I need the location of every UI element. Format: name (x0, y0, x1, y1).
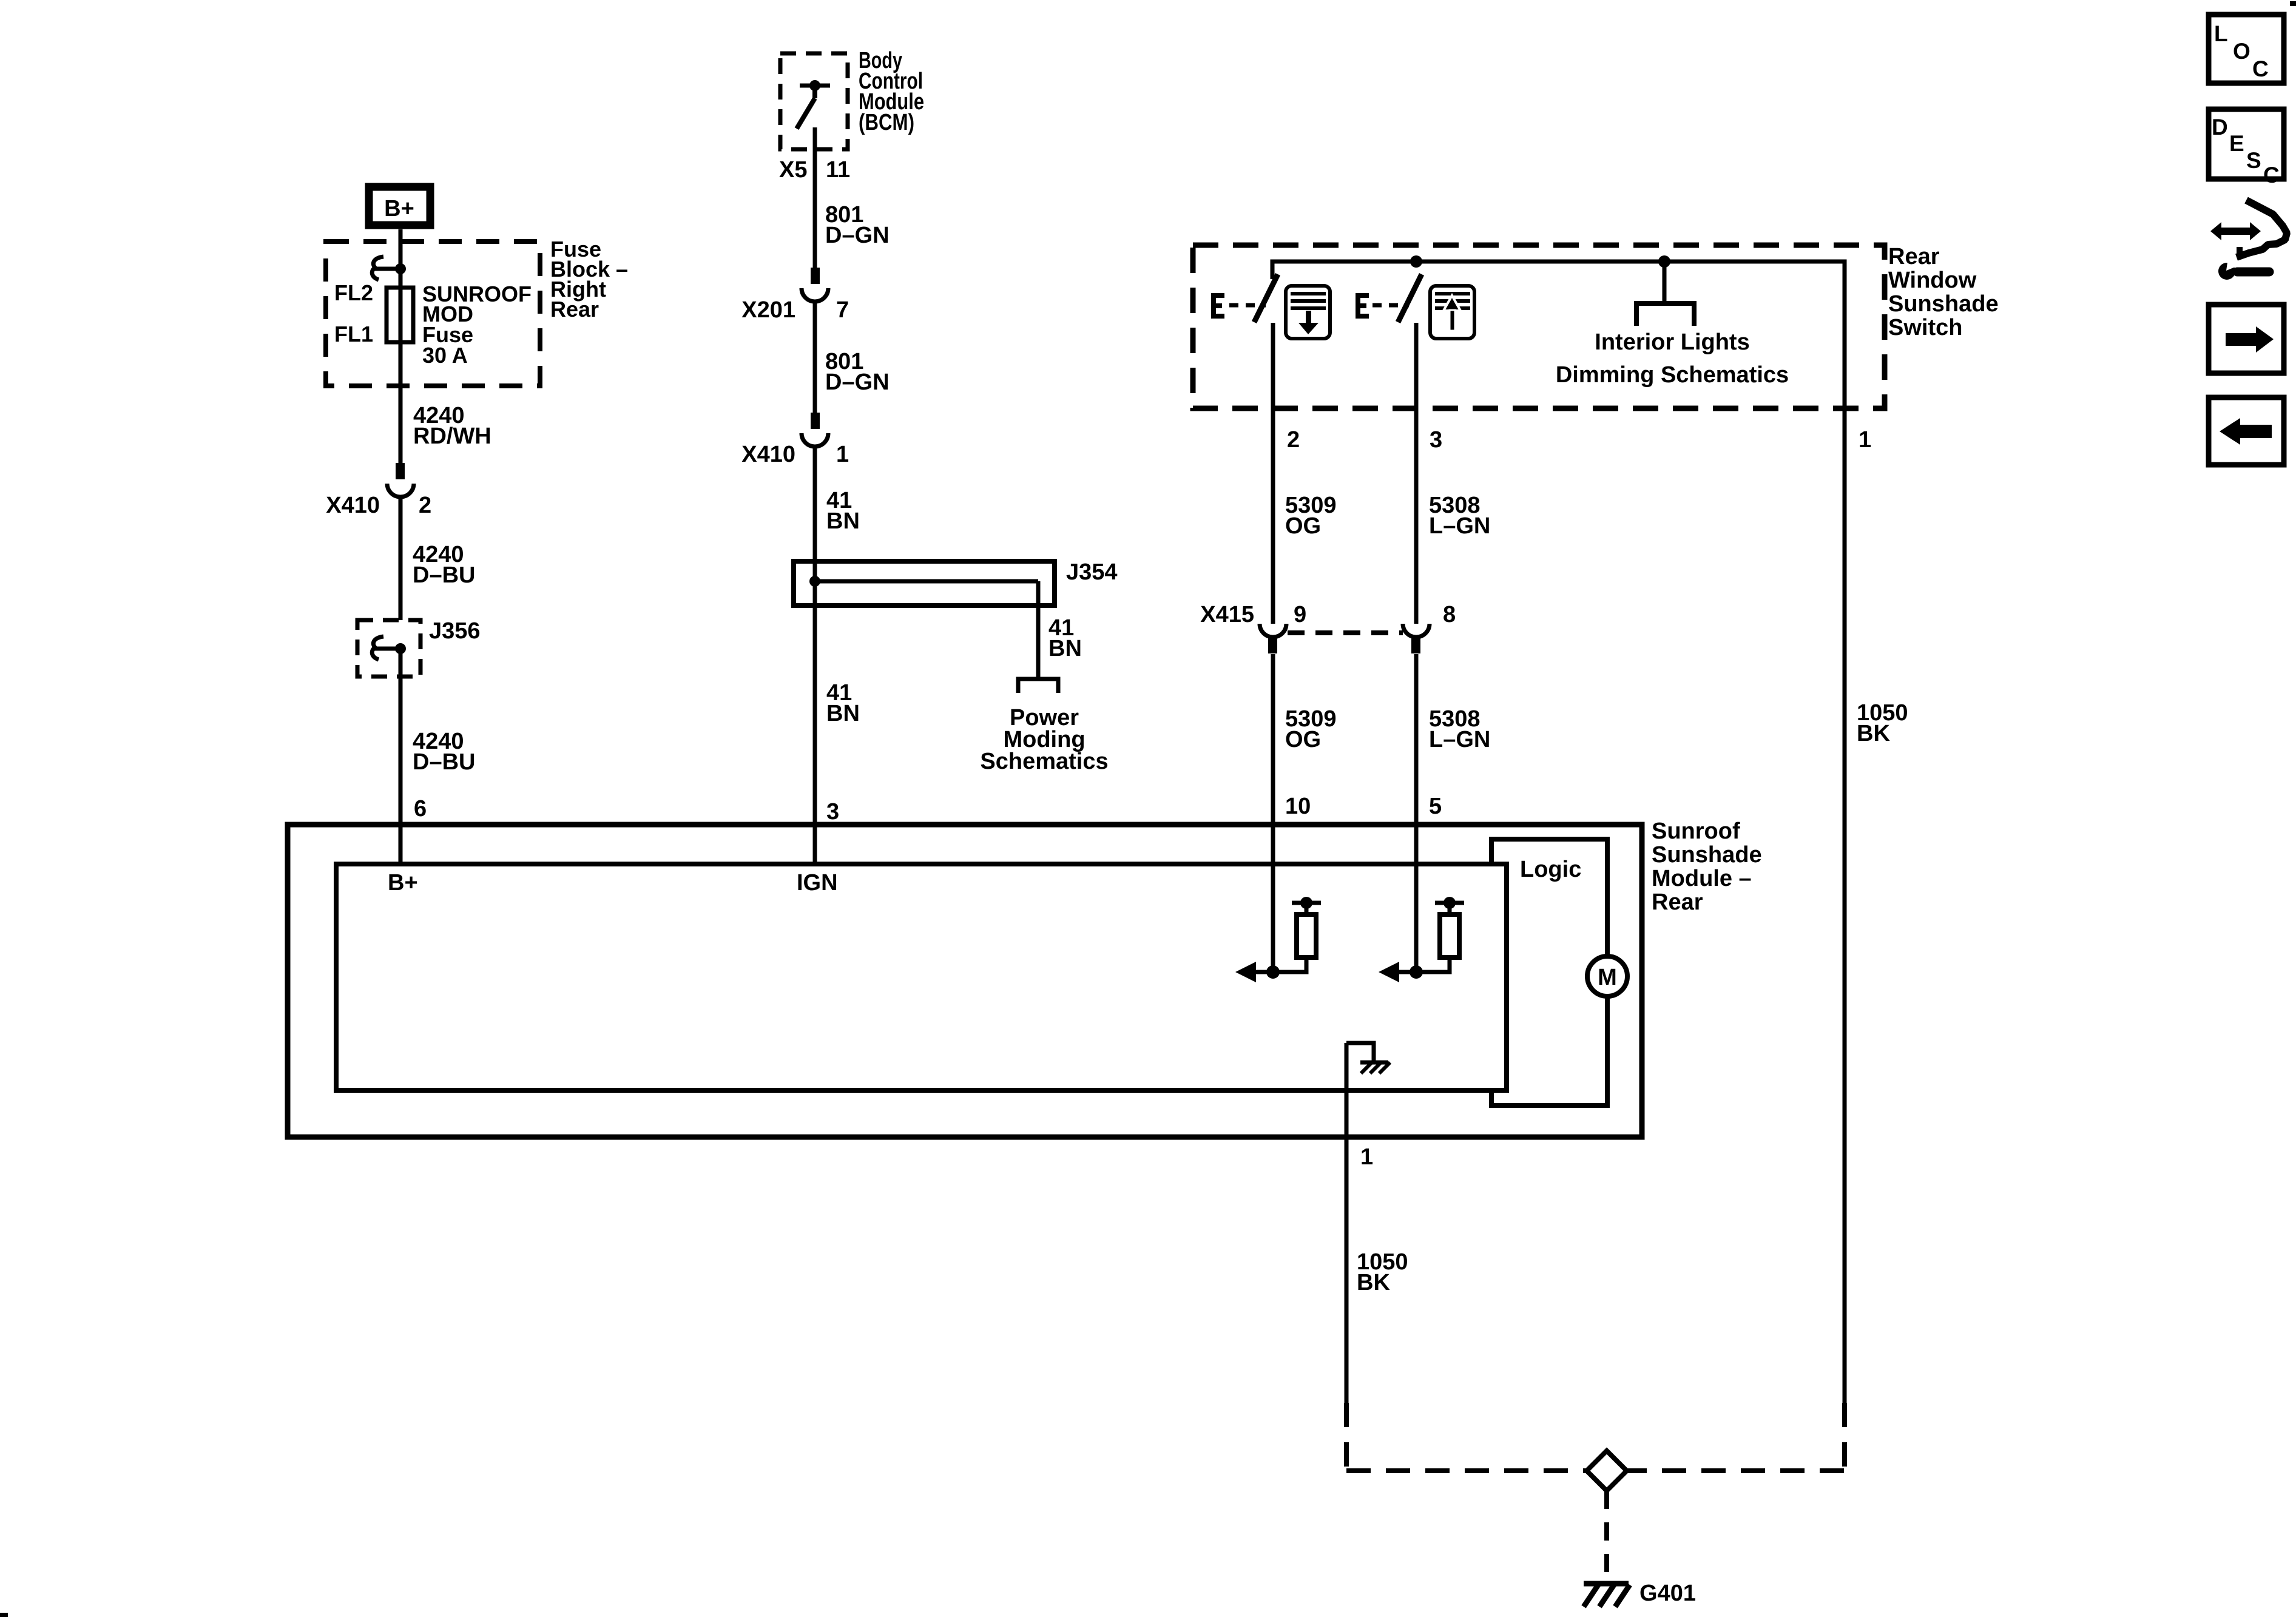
dashed drop to G401 (1604, 1491, 1609, 1582)
page artifact bottom left (0, 1613, 8, 1617)
sunshade close icon (1286, 286, 1330, 339)
wire label 41 BN (826, 680, 860, 726)
svg-text:FL1: FL1 (334, 322, 373, 346)
svg-text:BN: BN (1048, 636, 1082, 661)
fuse block dashed box (326, 241, 540, 386)
svg-text:L: L (2214, 21, 2228, 46)
motor M (1587, 956, 1627, 996)
connector X410 pin 1 (802, 413, 828, 447)
fuse FL1 SUNROOF MOD 30A (387, 269, 413, 342)
splice J356 dashed box (357, 620, 420, 677)
svg-text:O: O (2233, 39, 2250, 64)
svg-text:X410: X410 (741, 442, 795, 467)
svg-text:2: 2 (1287, 427, 1300, 453)
svg-text:1: 1 (1360, 1144, 1373, 1170)
E drive symbol S2 (1357, 293, 1409, 319)
label Power Moding Schematics (980, 705, 1108, 774)
wire BCM to X201 (813, 127, 817, 268)
bus wire in switch + right wire 1050 BK down (1272, 262, 1845, 1403)
switch S1 (sunshade close) (1254, 274, 1278, 624)
svg-text:M: M (1598, 965, 1617, 990)
svg-text:C: C (2252, 56, 2269, 81)
svg-text:7: 7 (836, 297, 849, 323)
svg-text:Schematics: Schematics (980, 749, 1108, 774)
logic block (1491, 839, 1607, 1106)
switch S2 (sunshade open) (1398, 274, 1422, 624)
node bus/interior-lights branch (1658, 255, 1670, 268)
svg-text:Switch: Switch (1888, 315, 1962, 340)
splice node diamond (1587, 1451, 1627, 1491)
ground G401 (1584, 1584, 1630, 1607)
svg-text:L–GN: L–GN (1429, 513, 1490, 539)
svg-text:D–GN: D–GN (825, 223, 890, 248)
svg-text:X201: X201 (741, 297, 795, 323)
wire label 4240 D-BU (413, 729, 475, 775)
label Fuse Block - Right Rear (550, 237, 628, 322)
svg-text:S: S (2246, 148, 2261, 173)
svg-text:1: 1 (836, 442, 849, 467)
svg-text:BK: BK (1357, 1270, 1390, 1295)
internal ground of module (1346, 1043, 1390, 1073)
connector X415 pin 9 (1260, 624, 1286, 653)
svg-text:Sunroof: Sunroof (1652, 819, 1740, 844)
module inner box (336, 864, 1507, 1090)
svg-text:OG: OG (1285, 727, 1321, 752)
svg-text:3: 3 (1430, 427, 1442, 453)
svg-text:BK: BK (1857, 721, 1890, 746)
Sunroof Sunshade Module outer box (288, 825, 1642, 1137)
svg-text:8: 8 (1443, 602, 1456, 627)
switch inside BCM (797, 80, 830, 129)
wire J356 to module pin 6 (399, 649, 403, 864)
svg-text:D–GN: D–GN (825, 370, 890, 395)
icon DESC (2209, 109, 2284, 187)
power symbol B+ (369, 187, 430, 225)
svg-text:2: 2 (419, 493, 431, 518)
node bus/switch2 (1410, 255, 1422, 268)
svg-text:6: 6 (414, 796, 427, 822)
svg-text:D–BU: D–BU (413, 749, 475, 775)
wire label 41 BN (1048, 615, 1082, 661)
splice pack J354 (794, 561, 1055, 679)
icon LOC (2209, 15, 2284, 83)
splice symbol J356 (372, 636, 406, 660)
icon harness repair (2210, 200, 2287, 280)
interior lights branch + off-page fork (1636, 262, 1694, 326)
svg-text:J356: J356 (429, 618, 481, 644)
svg-text:Rear: Rear (1888, 244, 1940, 269)
Rear Window Sunshade Switch dashed box (1193, 245, 1885, 408)
svg-text:BN: BN (826, 508, 860, 534)
svg-text:X410: X410 (326, 493, 380, 518)
svg-text:C: C (2263, 163, 2280, 187)
connector X410 pin 2 (387, 463, 414, 497)
svg-text:Module –: Module – (1652, 866, 1752, 891)
wire label 41 BN (826, 488, 860, 534)
svg-text:Dimming Schematics: Dimming Schematics (1556, 362, 1789, 388)
svg-text:X415: X415 (1200, 602, 1254, 627)
wire X410 to J356 (399, 497, 403, 620)
wire label 801 D-GN (825, 202, 890, 248)
svg-text:RD/WH: RD/WH (413, 424, 491, 449)
svg-text:Interior Lights: Interior Lights (1595, 329, 1749, 355)
svg-text:11: 11 (826, 157, 850, 183)
wire label 801 D-GN (825, 349, 890, 395)
svg-text:OG: OG (1285, 513, 1321, 539)
icon arrow right (2209, 305, 2284, 373)
dashed ground bus (1346, 1468, 1845, 1473)
wire X415-9 to module pin 10 (1271, 654, 1275, 972)
splice tap in fuse block (372, 257, 406, 280)
svg-text:3: 3 (826, 799, 839, 825)
svg-text:30 A: 30 A (422, 343, 468, 368)
sunshade open icon (1430, 286, 1474, 339)
wire label 5309 OG (1285, 493, 1337, 539)
svg-text:BN: BN (826, 701, 860, 726)
svg-text:Rear: Rear (550, 297, 599, 322)
svg-text:G401: G401 (1639, 1581, 1696, 1606)
icon arrow left (2209, 397, 2284, 465)
wire X201 to X410 (813, 302, 817, 413)
off-page fork to Power Moding (1018, 679, 1058, 693)
svg-text:5: 5 (1429, 794, 1442, 819)
svg-text:10: 10 (1285, 794, 1311, 819)
svg-text:FL2: FL2 (334, 280, 373, 305)
wire label 5309 OG (1285, 706, 1337, 752)
svg-text:Logic: Logic (1520, 857, 1581, 882)
svg-text:X5: X5 (779, 157, 807, 183)
wire label 1050 BK right (1857, 700, 1908, 746)
E drive symbol S1 (1212, 293, 1266, 319)
X415 harness dashed link (1288, 630, 1403, 635)
wire module pin 1 ground (1345, 1043, 1349, 1403)
svg-text:B+: B+ (384, 196, 414, 221)
svg-text:Sunshade: Sunshade (1888, 291, 1999, 317)
svg-text:1: 1 (1859, 427, 1871, 453)
svg-text:Rear: Rear (1652, 890, 1703, 915)
page artifact top right (2290, 1, 2296, 6)
svg-text:D: D (2212, 115, 2228, 140)
connector X415 pin 8 (1403, 624, 1430, 653)
svg-text:Window: Window (1888, 268, 1977, 293)
input network pin 5 (1379, 897, 1464, 982)
svg-text:Sunshade: Sunshade (1652, 842, 1762, 868)
dashed ground harness right (1842, 1403, 1847, 1471)
svg-text:9: 9 (1294, 602, 1306, 627)
connector X201 pin 7 (802, 268, 828, 302)
svg-text:D–BU: D–BU (413, 562, 475, 588)
input network pin 10 (1235, 897, 1321, 982)
wire label 4240 D-BU (413, 542, 475, 588)
label Interior Lights Dimming Schematics (1556, 329, 1789, 388)
svg-text:E: E (2229, 131, 2244, 156)
svg-text:L–GN: L–GN (1429, 727, 1490, 752)
svg-text:J354: J354 (1066, 559, 1118, 585)
wire X415-8 to module pin 5 (1414, 654, 1419, 972)
wire label 1050 BK (1357, 1249, 1408, 1295)
svg-text:IGN: IGN (797, 870, 838, 896)
label Sunroof Sunshade Module - Rear (1652, 819, 1762, 915)
wire B+ to fuse block (399, 229, 403, 271)
wire label 5308 L-GN (1429, 706, 1490, 752)
label Body Control Module (BCM) (859, 48, 924, 135)
BCM dashed box (780, 53, 848, 149)
wire label 4240 RD/WH (413, 403, 491, 449)
label SUNROOF MOD Fuse 30 A (422, 282, 532, 368)
wire label 5308 L-GN (1429, 493, 1490, 539)
wire X410 to module pin 3 (813, 447, 817, 864)
wire fuse to X410 (399, 342, 403, 463)
svg-text:(BCM): (BCM) (859, 110, 914, 135)
dashed ground harness left (1344, 1403, 1349, 1471)
svg-text:B+: B+ (388, 870, 418, 896)
label Rear Window Sunshade Switch (1888, 244, 1999, 340)
